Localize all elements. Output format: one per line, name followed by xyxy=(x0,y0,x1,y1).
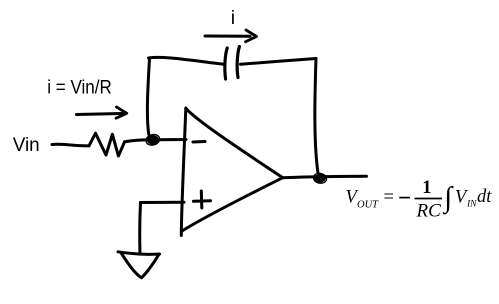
svg-text:Vin: Vin xyxy=(13,135,40,156)
output node dot xyxy=(313,172,328,184)
formula minus sign xyxy=(399,197,410,199)
wire input from Vin to resistor xyxy=(52,144,89,146)
svg-text:=: = xyxy=(384,188,394,208)
op-amp U1 bottom edge xyxy=(182,178,283,231)
resistor R zigzag xyxy=(89,133,125,156)
svg-text:OUT: OUT xyxy=(357,200,379,211)
junction node dot at inverting input xyxy=(145,133,161,147)
wire feedback right vertical xyxy=(315,59,318,174)
arrow i=Vin/R head xyxy=(116,107,127,118)
arrow i top head xyxy=(246,30,257,42)
capacitor C left plate xyxy=(225,48,227,79)
wire non-inverting input horizontal xyxy=(141,201,185,204)
wire feedback top-left segment xyxy=(149,57,225,64)
op-amp plus sign xyxy=(194,191,211,208)
op-amp U1 top edge xyxy=(186,109,283,178)
svg-text:∫: ∫ xyxy=(442,181,454,214)
op-amp minus sign xyxy=(193,140,205,144)
wire resistor to junction xyxy=(125,140,148,142)
svg-text:1: 1 xyxy=(422,178,431,198)
svg-text:i = Vin/R: i = Vin/R xyxy=(47,75,111,97)
ground symbol top bar xyxy=(118,252,160,255)
arrow i=Vin/R shaft xyxy=(77,114,123,115)
op-amp U1 left edge xyxy=(181,108,186,236)
wire feedback top-right segment xyxy=(241,59,317,65)
arrow i top shaft xyxy=(205,35,250,38)
wire junction to op-amp inverting input xyxy=(156,138,186,141)
wire op-amp output xyxy=(283,176,367,177)
svg-text:RC: RC xyxy=(416,201,442,222)
ground symbol V strokes xyxy=(122,254,159,278)
wire feedback left vertical xyxy=(147,59,149,135)
wire non-inverting input vertical to ground xyxy=(138,203,142,254)
svg-text:IN: IN xyxy=(466,200,477,210)
svg-text:dt: dt xyxy=(477,187,492,207)
formula fraction bar xyxy=(415,198,443,200)
svg-text:i: i xyxy=(231,7,235,29)
capacitor C right plate xyxy=(237,47,239,78)
